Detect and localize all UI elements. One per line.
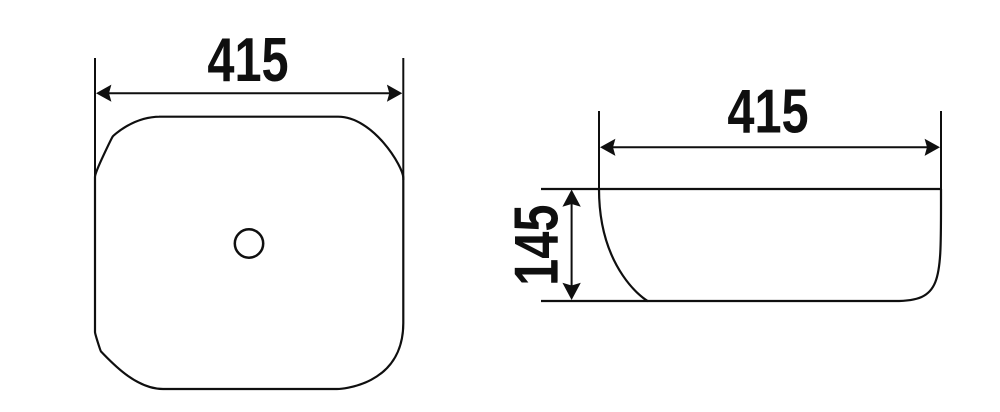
left arrowhead (side view) xyxy=(600,139,615,156)
down arrowhead (145 dim) xyxy=(562,283,580,300)
right extension line (top view width dim) xyxy=(402,58,404,180)
svg-text:145: 145 xyxy=(501,205,571,286)
vertical dimension line 145 xyxy=(571,200,573,290)
foot serif of digit 1 (top view text) xyxy=(239,77,258,81)
foot serif of digit 1 (side view text) xyxy=(759,129,778,133)
drain hole circle xyxy=(235,229,263,257)
basin right side curve xyxy=(895,189,941,301)
dimension line 415 (top view) xyxy=(107,92,391,94)
basin top edge + left extension of 145 dim xyxy=(541,188,941,190)
left extension line (top view width dim) xyxy=(94,58,96,180)
svg-text:415: 415 xyxy=(207,24,288,94)
up arrowhead (145 dim) xyxy=(562,190,580,207)
basin outline (rounded square, top view) xyxy=(95,117,403,389)
right extension line (side view width dim) xyxy=(940,111,942,189)
svg-text:415: 415 xyxy=(727,76,808,146)
right arrowhead (side view) xyxy=(925,139,940,156)
left extension line (side view width dim) xyxy=(598,111,600,189)
foot serif of digit 1 (rotated 145 text) xyxy=(554,262,558,281)
right arrowhead xyxy=(387,85,402,102)
basin left side curve xyxy=(599,189,648,301)
dimension line 415 (side view) xyxy=(611,146,929,148)
basin bottom edge + left extension of 145 dim xyxy=(541,300,895,302)
left arrowhead xyxy=(96,85,111,102)
